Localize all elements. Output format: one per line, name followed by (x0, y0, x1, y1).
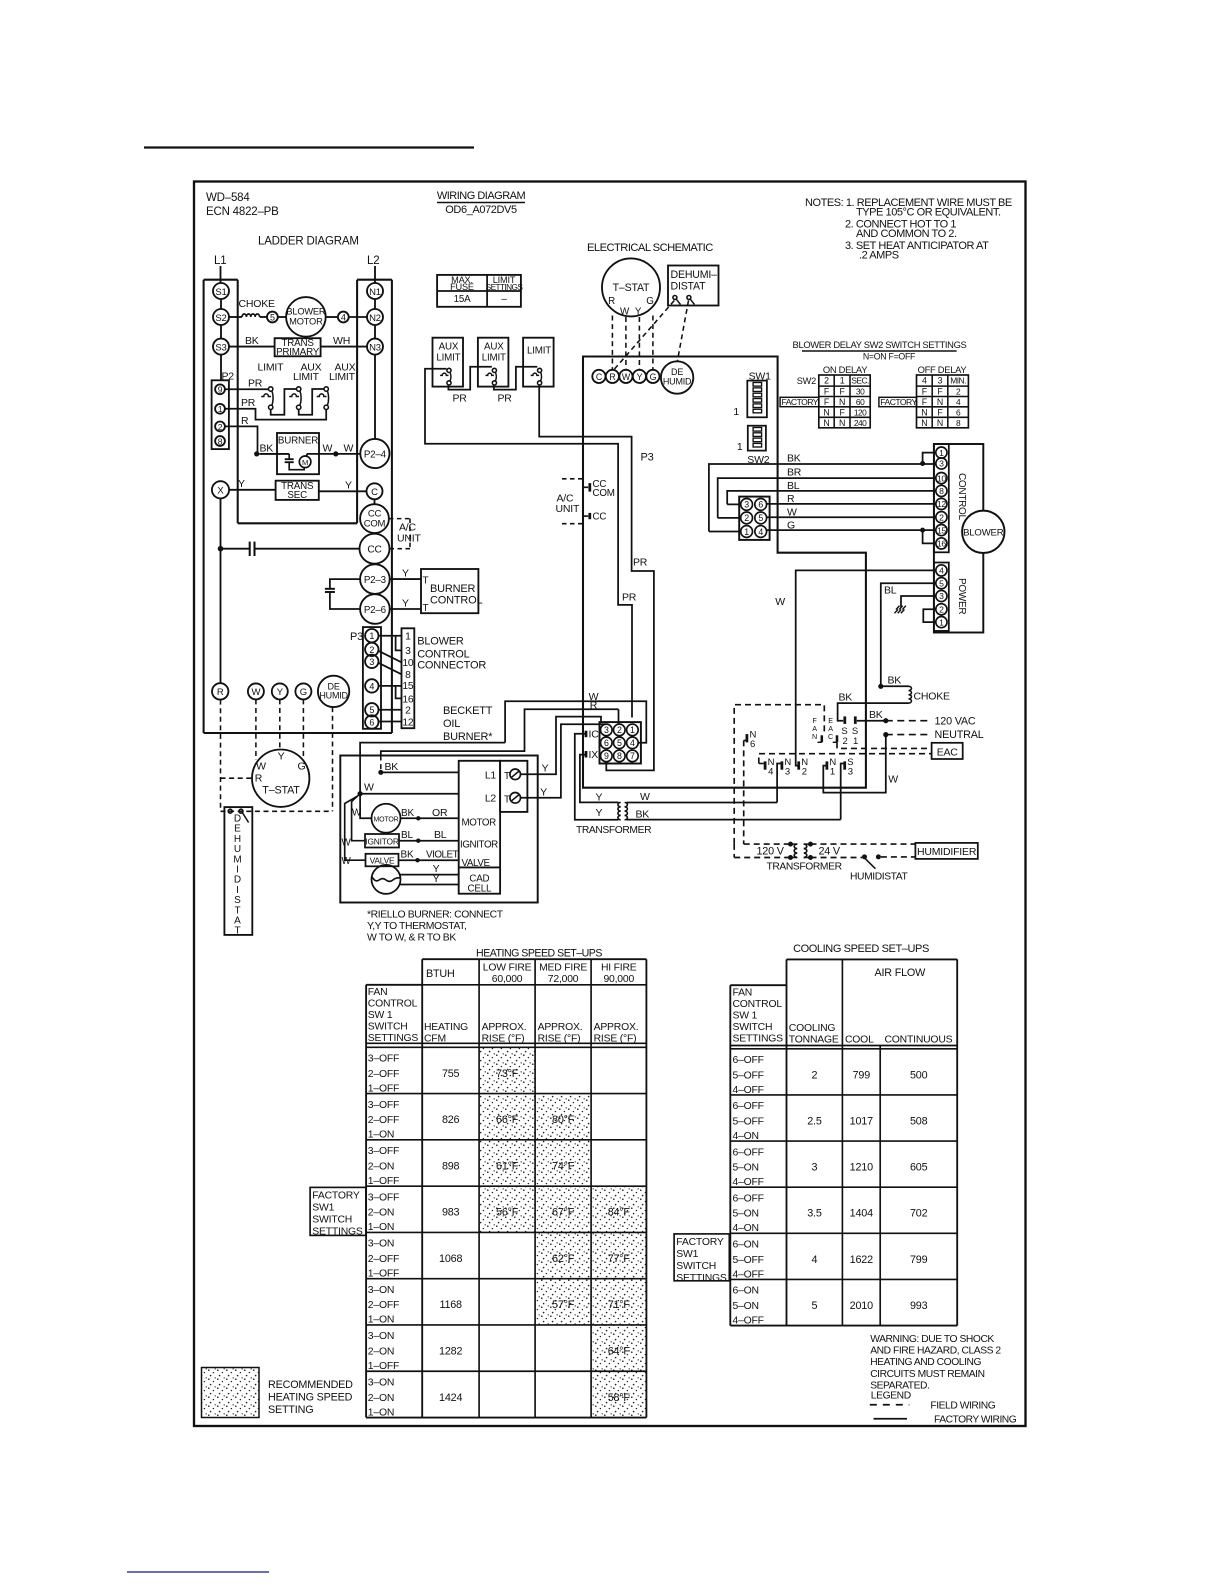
svg-text:64°F: 64°F (608, 1345, 631, 1357)
svg-text:W: W (640, 791, 650, 803)
svg-text:BLOWER: BLOWER (417, 636, 464, 648)
heating table grid (422, 958, 646, 960)
burner motor circle (372, 804, 401, 833)
junction X-CC (218, 546, 224, 552)
svg-text:80°F: 80°F (552, 1114, 575, 1126)
svg-text:58°F: 58°F (608, 1392, 631, 1404)
svg-text:G: G (298, 761, 306, 773)
svg-text:1: 1 (733, 406, 739, 418)
wire P3-4 to 16 (396, 686, 402, 699)
svg-text:1: 1 (744, 527, 749, 537)
wire power4 to N2 (796, 570, 936, 765)
svg-text:G: G (300, 687, 307, 698)
svg-text:Y: Y (402, 598, 409, 610)
wire valve BK VIOLET (399, 859, 459, 861)
control pin 3 (936, 458, 947, 469)
control pin 15 (936, 525, 947, 536)
svg-text:3–OFF: 3–OFF (368, 1192, 399, 1203)
svg-text:77°F: 77°F (608, 1253, 631, 1265)
svg-text:5: 5 (617, 738, 622, 748)
svg-text:5–OFF: 5–OFF (733, 1255, 764, 1266)
svg-text:15: 15 (402, 681, 414, 692)
svg-text:3: 3 (369, 657, 374, 667)
svg-text:2: 2 (218, 422, 223, 432)
dehumidistat box (schematic) (668, 266, 719, 306)
svg-text:62°F: 62°F (552, 1253, 575, 1265)
blower control pin list (402, 628, 415, 728)
svg-text:OD6_A072DV5: OD6_A072DV5 (445, 204, 517, 216)
svg-text:FIELD WIRING: FIELD WIRING (930, 1401, 995, 1412)
terminal IC (585, 731, 588, 738)
wire IC to transformer (575, 734, 619, 820)
terminal Y (272, 683, 288, 699)
svg-text:4: 4 (630, 738, 635, 748)
svg-text:1168: 1168 (439, 1299, 462, 1311)
svg-text:W: W (344, 443, 354, 455)
svg-text:1: 1 (405, 632, 411, 643)
wire BR (718, 478, 936, 518)
svg-text:5: 5 (270, 313, 275, 323)
svg-text:RISE (°F): RISE (°F) (594, 1034, 637, 1045)
svg-text:L2: L2 (485, 794, 497, 805)
svg-text:MIN.: MIN. (950, 376, 966, 386)
junction BK choke (878, 684, 883, 689)
power connector strip (934, 563, 949, 631)
pin 5 (267, 312, 278, 323)
svg-text:826: 826 (442, 1114, 460, 1126)
svg-text:61°F: 61°F (496, 1160, 519, 1172)
svg-text:MED FIRE: MED FIRE (539, 963, 587, 974)
svg-text:60: 60 (856, 397, 865, 407)
svg-text:W: W (252, 687, 261, 698)
svg-text:R: R (241, 415, 249, 427)
svg-text:W: W (620, 307, 630, 318)
wire N6 stub (744, 739, 746, 741)
svg-text:5–ON: 5–ON (733, 1209, 759, 1220)
svg-text:OR: OR (432, 807, 448, 819)
svg-text:Y: Y (635, 307, 642, 318)
wire W riser to grid (360, 743, 505, 794)
burner motor M (299, 456, 311, 468)
svg-text:6–OFF: 6–OFF (733, 1147, 764, 1158)
svg-text:CONNECTOR: CONNECTOR (417, 660, 486, 672)
beckett outer box (340, 756, 537, 903)
svg-text:W: W (787, 506, 797, 518)
connector 6-pin (739, 497, 769, 540)
terminal DE HUMID (661, 361, 693, 393)
FAN contact (821, 735, 824, 742)
svg-text:67°F: 67°F (552, 1207, 575, 1219)
wire neutral to N1 (823, 735, 886, 793)
svg-text:1404: 1404 (850, 1208, 873, 1220)
svg-text:C: C (596, 372, 603, 382)
svg-text:3.5: 3.5 (807, 1208, 822, 1220)
svg-text:L1: L1 (214, 255, 226, 267)
svg-text:9: 9 (604, 751, 609, 761)
svg-text:POWER: POWER (956, 578, 967, 614)
terminal N1 (367, 283, 383, 299)
svg-text:6: 6 (758, 500, 763, 510)
neutral junction (883, 732, 888, 737)
svg-text:1: 1 (939, 617, 944, 627)
svg-text:LIMIT: LIMIT (482, 353, 506, 364)
svg-text:P3: P3 (350, 631, 363, 643)
svg-text:10: 10 (937, 473, 947, 483)
svg-text:P2–6: P2–6 (364, 605, 387, 616)
svg-text:WH: WH (333, 335, 350, 347)
svg-text:6–ON: 6–ON (733, 1286, 759, 1297)
dashed t-stat G to terminal (652, 316, 654, 370)
svg-text:4–OFF: 4–OFF (733, 1315, 764, 1326)
svg-text:SETTING: SETTING (268, 1404, 313, 1416)
svg-text:1210: 1210 (850, 1162, 873, 1174)
svg-text:2010: 2010 (850, 1300, 873, 1312)
factory sw1 box (cooling) (674, 1234, 729, 1281)
svg-text:BLOWER: BLOWER (286, 307, 326, 317)
control connector strip (934, 444, 949, 552)
svg-text:VIOLET: VIOLET (426, 850, 459, 861)
A/C unit terminals (schematic) (562, 478, 583, 480)
svg-text:HI FIRE: HI FIRE (601, 963, 637, 974)
wire AL1 top to PR return (425, 369, 632, 718)
svg-text:1–OFF: 1–OFF (368, 1268, 399, 1279)
svg-text:2–OFF: 2–OFF (368, 1300, 399, 1311)
svg-text:15A: 15A (454, 294, 471, 305)
dashed 120 VAC (886, 720, 929, 722)
svg-text:2: 2 (824, 376, 829, 386)
svg-text:1017: 1017 (850, 1115, 873, 1127)
P3 pin 2 (365, 643, 378, 656)
svg-text:PRIMARY: PRIMARY (276, 347, 320, 358)
svg-text:500: 500 (910, 1069, 928, 1081)
choke coil L1 (242, 314, 260, 317)
svg-text:IGNITOR: IGNITOR (460, 840, 498, 851)
svg-text:N: N (937, 397, 943, 407)
svg-text:HEATING AND COOLING: HEATING AND COOLING (870, 1357, 981, 1368)
svg-text:SW1: SW1 (676, 1249, 698, 1260)
svg-text:84°F: 84°F (608, 1207, 631, 1219)
P3 pin 4 (365, 679, 378, 692)
svg-text:W: W (323, 443, 333, 455)
svg-text:Y: Y (596, 807, 603, 819)
svg-text:HEATING: HEATING (424, 1022, 468, 1033)
legend field wiring (870, 1404, 910, 1406)
terminal W (248, 683, 264, 699)
factory sw1 box (heating) (310, 1187, 366, 1235)
grid pin 6 (601, 737, 613, 749)
wire W to grid 4 (505, 701, 646, 743)
grid pin 5 (614, 737, 626, 749)
dashed field box (734, 705, 824, 844)
grid pin 9 (601, 750, 613, 762)
wire N1-N2 (374, 299, 376, 309)
svg-text:799: 799 (853, 1069, 871, 1081)
svg-text:72,000: 72,000 (548, 974, 579, 985)
svg-text:9: 9 (218, 385, 223, 395)
svg-text:16: 16 (937, 539, 947, 549)
grid pin 4 (627, 737, 639, 749)
terminal S3 (843, 761, 846, 769)
svg-text:N3: N3 (369, 342, 381, 353)
svg-text:8: 8 (939, 486, 944, 496)
burner box (277, 433, 319, 474)
svg-text:CC: CC (593, 512, 607, 523)
svg-text:MOTOR: MOTOR (289, 317, 323, 327)
dashed dehumidistat to R (615, 301, 675, 370)
wire burner to P2-4 (306, 454, 360, 457)
6-pin 4 (755, 526, 767, 538)
blower motor (962, 511, 1004, 553)
svg-text:SW 1: SW 1 (368, 1010, 393, 1021)
dashed 120V feeds (744, 843, 791, 845)
svg-text:Y: Y (345, 480, 352, 492)
terminal C (592, 370, 605, 383)
svg-text:PR: PR (498, 393, 513, 405)
transformer 24V (schematic) (618, 802, 621, 819)
wire transformer W to N3 (627, 802, 778, 804)
svg-text:COOLING SPEED SET–UPS: COOLING SPEED SET–UPS (793, 943, 929, 955)
svg-text:LIMIT: LIMIT (258, 362, 285, 374)
svg-text:1: 1 (840, 376, 845, 386)
svg-text:ON DELAY: ON DELAY (823, 364, 868, 375)
svg-text:FACTORY: FACTORY (312, 1191, 360, 1202)
svg-text:UNIT: UNIT (397, 533, 421, 545)
terminal G (646, 370, 659, 383)
recommended legend (202, 1368, 260, 1418)
svg-text:FAN: FAN (368, 987, 388, 998)
wire PR from P2-9 (225, 388, 269, 390)
6-pin 3 (741, 499, 753, 511)
svg-text:SW 1: SW 1 (733, 1011, 758, 1022)
wire P3-1 to 3 (396, 636, 402, 651)
wire transformer BK to S3 (627, 819, 841, 821)
svg-text:5–OFF: 5–OFF (733, 1070, 764, 1081)
svg-text:CHOKE: CHOKE (914, 691, 951, 703)
svg-text:IX: IX (589, 749, 599, 761)
junction W (358, 791, 363, 796)
6-pin 5 (755, 512, 767, 524)
svg-text:SWITCH: SWITCH (312, 1215, 352, 1226)
svg-text:Y: Y (596, 792, 603, 804)
wire IX to transformer (580, 755, 619, 803)
terminal S2 (213, 309, 229, 325)
wire BK (709, 464, 936, 532)
svg-text:W: W (888, 774, 898, 786)
svg-text:1: 1 (737, 441, 743, 453)
svg-text:799: 799 (910, 1254, 928, 1266)
wire S3 to trans primary (229, 346, 275, 348)
svg-text:T: T (234, 926, 240, 937)
wire L1 drop (220, 266, 222, 283)
svg-text:APPROX.: APPROX. (538, 1022, 583, 1033)
choke coil (909, 686, 912, 703)
dashed wire dehumid down (332, 707, 334, 811)
svg-text:C: C (371, 487, 378, 498)
svg-text:ELECTRICAL SCHEMATIC: ELECTRICAL SCHEMATIC (587, 242, 713, 254)
wire X to trans sec (229, 489, 276, 491)
junction BK (254, 451, 259, 456)
svg-text:W: W (775, 596, 785, 608)
svg-text:HEATING SPEED: HEATING SPEED (268, 1392, 353, 1404)
wire BK to L1 (381, 771, 459, 773)
svg-text:CONTROL: CONTROL (956, 473, 967, 521)
svg-text:TRANSFORMER: TRANSFORMER (767, 862, 842, 873)
svg-text:60,000: 60,000 (492, 974, 523, 985)
wire T1 Y to grid (521, 717, 602, 775)
svg-text:CC: CC (367, 545, 381, 556)
svg-text:120 V: 120 V (757, 846, 785, 858)
svg-text:BK: BK (401, 850, 414, 861)
svg-text:X: X (217, 486, 224, 497)
svg-text:4–OFF: 4–OFF (733, 1085, 764, 1096)
svg-text:3: 3 (405, 646, 411, 657)
svg-text:–: – (501, 294, 507, 305)
power pin 4 (936, 565, 947, 576)
svg-text:74°F: 74°F (552, 1160, 575, 1172)
svg-text:MOTOR: MOTOR (374, 817, 399, 824)
svg-text:F: F (840, 387, 846, 397)
terminal S1 (cap) (854, 716, 857, 724)
dashed wire W to t-stat (255, 699, 257, 760)
svg-text:CONTINUOUS: CONTINUOUS (885, 1035, 953, 1046)
svg-text:3: 3 (938, 376, 943, 386)
svg-text:OIL: OIL (443, 718, 460, 730)
svg-text:BK: BK (839, 692, 853, 704)
wire power3 ground (901, 596, 936, 607)
P3 pin 3 (365, 655, 378, 668)
wire W to valve (345, 796, 366, 860)
svg-text:6: 6 (369, 717, 374, 727)
transformer TRANS PRIMARY (275, 338, 321, 356)
svg-text:S1: S1 (215, 287, 226, 298)
svg-text:CONTROL: CONTROL (368, 999, 418, 1010)
svg-text:BL: BL (434, 829, 447, 841)
dashed 24V to humidistat (811, 857, 863, 859)
svg-text:2.5: 2.5 (807, 1115, 822, 1127)
svg-text:1–OFF: 1–OFF (368, 1083, 399, 1094)
svg-text:12: 12 (402, 717, 414, 728)
svg-text:SEC.: SEC. (851, 376, 869, 386)
wire W to motor (360, 794, 371, 819)
svg-text:4: 4 (369, 681, 374, 691)
wire P3-3 to 8 (378, 663, 401, 675)
svg-text:SWITCH: SWITCH (676, 1261, 716, 1272)
svg-text:NEUTRAL: NEUTRAL (935, 729, 984, 741)
ladder inner bottom wire (238, 522, 357, 524)
valve box (366, 854, 399, 867)
svg-text:R: R (609, 372, 615, 382)
svg-text:6–ON: 6–ON (733, 1240, 759, 1251)
blower motor B1 (286, 297, 326, 337)
svg-text:2: 2 (369, 645, 374, 655)
wire capacitor to CC (255, 548, 360, 550)
humidifier box (915, 843, 977, 859)
svg-text:SW2: SW2 (797, 376, 816, 386)
wire 5 to motor (278, 316, 286, 318)
svg-text:3: 3 (848, 766, 853, 777)
svg-text:HEATING SPEED SET–UPS: HEATING SPEED SET–UPS (476, 948, 602, 960)
wire LIM bottom PR run (539, 385, 654, 770)
wire P2-3 to burner control (390, 578, 421, 580)
wire P2-6 to burner control (390, 608, 421, 610)
terminal C (367, 483, 383, 499)
terminal DEHUMID (318, 676, 349, 707)
svg-text:T: T (504, 771, 510, 782)
cad cell (372, 865, 401, 894)
svg-text:HUMID: HUMID (663, 377, 692, 387)
factory box off-delay (879, 397, 917, 406)
svg-text:T: T (504, 795, 510, 806)
svg-text:LIMIT: LIMIT (293, 371, 320, 383)
ladder right rail (391, 280, 393, 733)
svg-text:L2: L2 (367, 255, 379, 267)
svg-text:P3: P3 (641, 452, 654, 464)
svg-text:LADDER DIAGRAM: LADDER DIAGRAM (258, 236, 359, 248)
svg-text:AND FIRE HAZARD, CLASS 2: AND FIRE HAZARD, CLASS 2 (870, 1346, 1001, 1357)
svg-text:508: 508 (910, 1115, 928, 1127)
dashed EAC wires (837, 742, 932, 748)
svg-text:3–ON: 3–ON (368, 1285, 394, 1296)
P2 pin 2 (215, 422, 225, 432)
svg-text:3: 3 (939, 459, 944, 469)
svg-text:LIMIT: LIMIT (329, 371, 356, 383)
terminal N1 (826, 761, 829, 769)
svg-text:PR: PR (622, 592, 637, 604)
svg-text:Y: Y (540, 786, 547, 798)
grid pin 8 (614, 750, 626, 762)
wire power5 BL (881, 583, 936, 686)
wire motor BK OR (401, 817, 459, 819)
svg-text:N2: N2 (369, 313, 381, 324)
grid pin 1 (627, 724, 639, 736)
svg-text:N: N (937, 418, 943, 428)
svg-text:2–ON: 2–ON (368, 1393, 394, 1404)
svg-text:FUSE: FUSE (450, 282, 474, 292)
svg-text:30: 30 (856, 387, 865, 397)
svg-text:IGNITOR: IGNITOR (365, 837, 398, 847)
terminal IX (585, 751, 588, 758)
wires cad cell Y Y (400, 874, 459, 876)
P3 pin 5 (365, 703, 378, 716)
wire to CC capacitor (221, 548, 250, 550)
svg-text:SETTINGS: SETTINGS (733, 1034, 784, 1045)
terminal S1 (213, 283, 229, 299)
svg-text:5: 5 (758, 513, 763, 523)
svg-text:2–ON: 2–ON (368, 1346, 394, 1357)
svg-text:LIMIT: LIMIT (436, 353, 460, 364)
svg-text:AUX: AUX (484, 342, 504, 353)
svg-text:605: 605 (910, 1162, 928, 1174)
svg-text:3: 3 (744, 500, 749, 510)
svg-text:BK: BK (260, 443, 274, 455)
svg-text:ECN 4822–PB: ECN 4822–PB (206, 206, 279, 218)
screw T1 (510, 769, 521, 780)
terminal P2-4 (360, 439, 389, 468)
svg-text:BK: BK (888, 675, 902, 687)
svg-text:DISTAT: DISTAT (671, 281, 707, 293)
wire P3-5 to 2 (379, 709, 402, 711)
wire P3-6 to 12 (379, 721, 402, 723)
svg-text:8: 8 (617, 751, 622, 761)
svg-text:CFM: CFM (424, 1034, 446, 1045)
svg-text:WARNING: DUE TO SHOCK: WARNING: DUE TO SHOCK (870, 1334, 994, 1345)
svg-text:N: N (921, 407, 927, 417)
wire AL1 bottom to AL2 top (448, 367, 492, 390)
limit switch LS1 (269, 387, 273, 391)
svg-text:T: T (423, 576, 429, 587)
wire W to ignitor (352, 794, 365, 841)
svg-text:Y,Y TO THERMOSTAT,: Y,Y TO THERMOSTAT, (367, 921, 466, 932)
